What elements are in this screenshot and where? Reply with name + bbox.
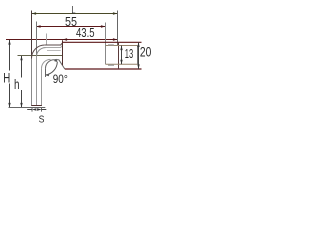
svg-text:90°: 90° [53, 72, 68, 86]
arm centerline (h top extension) [18, 55, 63, 57]
small grey mark on arm bottom near head [108, 64, 114, 66]
vertical arm right edge (shank) [45, 68, 47, 77]
horizontal arm bottom outline [54, 59, 59, 61]
dimension H line [8, 40, 10, 108]
90 degree arc arrowheads [46, 73, 50, 76]
dimension 43.5 line (doubles as H top extension line) [6, 38, 118, 40]
sleeve top outline [63, 41, 142, 43]
horizontal arm top outline [45, 43, 63, 45]
extension line at elbow tangent [46, 34, 48, 45]
dimension 55 line [36, 25, 106, 27]
svg-text:20: 20 [140, 44, 151, 59]
horizontal arm internal line 2 [47, 50, 61, 52]
S extension tick left [31, 107, 33, 111]
horizontal arm internal line 1 [46, 45, 63, 47]
extension line right for L and 43.5 [117, 11, 119, 47]
S dimension arrows [27, 108, 46, 110]
90 degree angle arc [46, 62, 58, 75]
dimension L line [32, 12, 118, 14]
hex key outer left edge (also L left extension line) [31, 11, 33, 59]
svg-text:13: 13 [125, 46, 133, 61]
hex key bottom end line [31, 105, 42, 107]
sleeve left face [62, 40, 64, 65]
hex key inner edge line 2 [41, 68, 43, 105]
svg-text:S: S [39, 115, 45, 126]
elbow internal arc 1 [37, 48, 46, 57]
elbow inner arc [46, 60, 55, 69]
svg-text:43.5: 43.5 [76, 26, 95, 40]
extension line bottom for H and h [9, 107, 46, 109]
extension line right for 55 [105, 23, 107, 65]
dimension h line [20, 56, 22, 108]
end cylinder bottom [106, 63, 138, 65]
sleeve bottom outline [65, 68, 142, 70]
small grey mark on arm top near head [108, 44, 114, 46]
dimension 20 line [137, 42, 139, 69]
end cylinder top [106, 45, 138, 47]
dimension 13 line [120, 46, 122, 65]
svg-text:H: H [3, 69, 10, 85]
elbow outer arc [32, 45, 45, 58]
sleeve right face [118, 42, 120, 69]
sleeve bottom-left chamfer diagonal [59, 60, 65, 69]
svg-text:h: h [14, 76, 20, 92]
elbow internal arc 2 [42, 59, 51, 68]
S extension tick right [41, 107, 43, 111]
end cylinder right face [137, 46, 139, 65]
hex key inner edge line (also 55 left extension) [36, 22, 38, 57]
